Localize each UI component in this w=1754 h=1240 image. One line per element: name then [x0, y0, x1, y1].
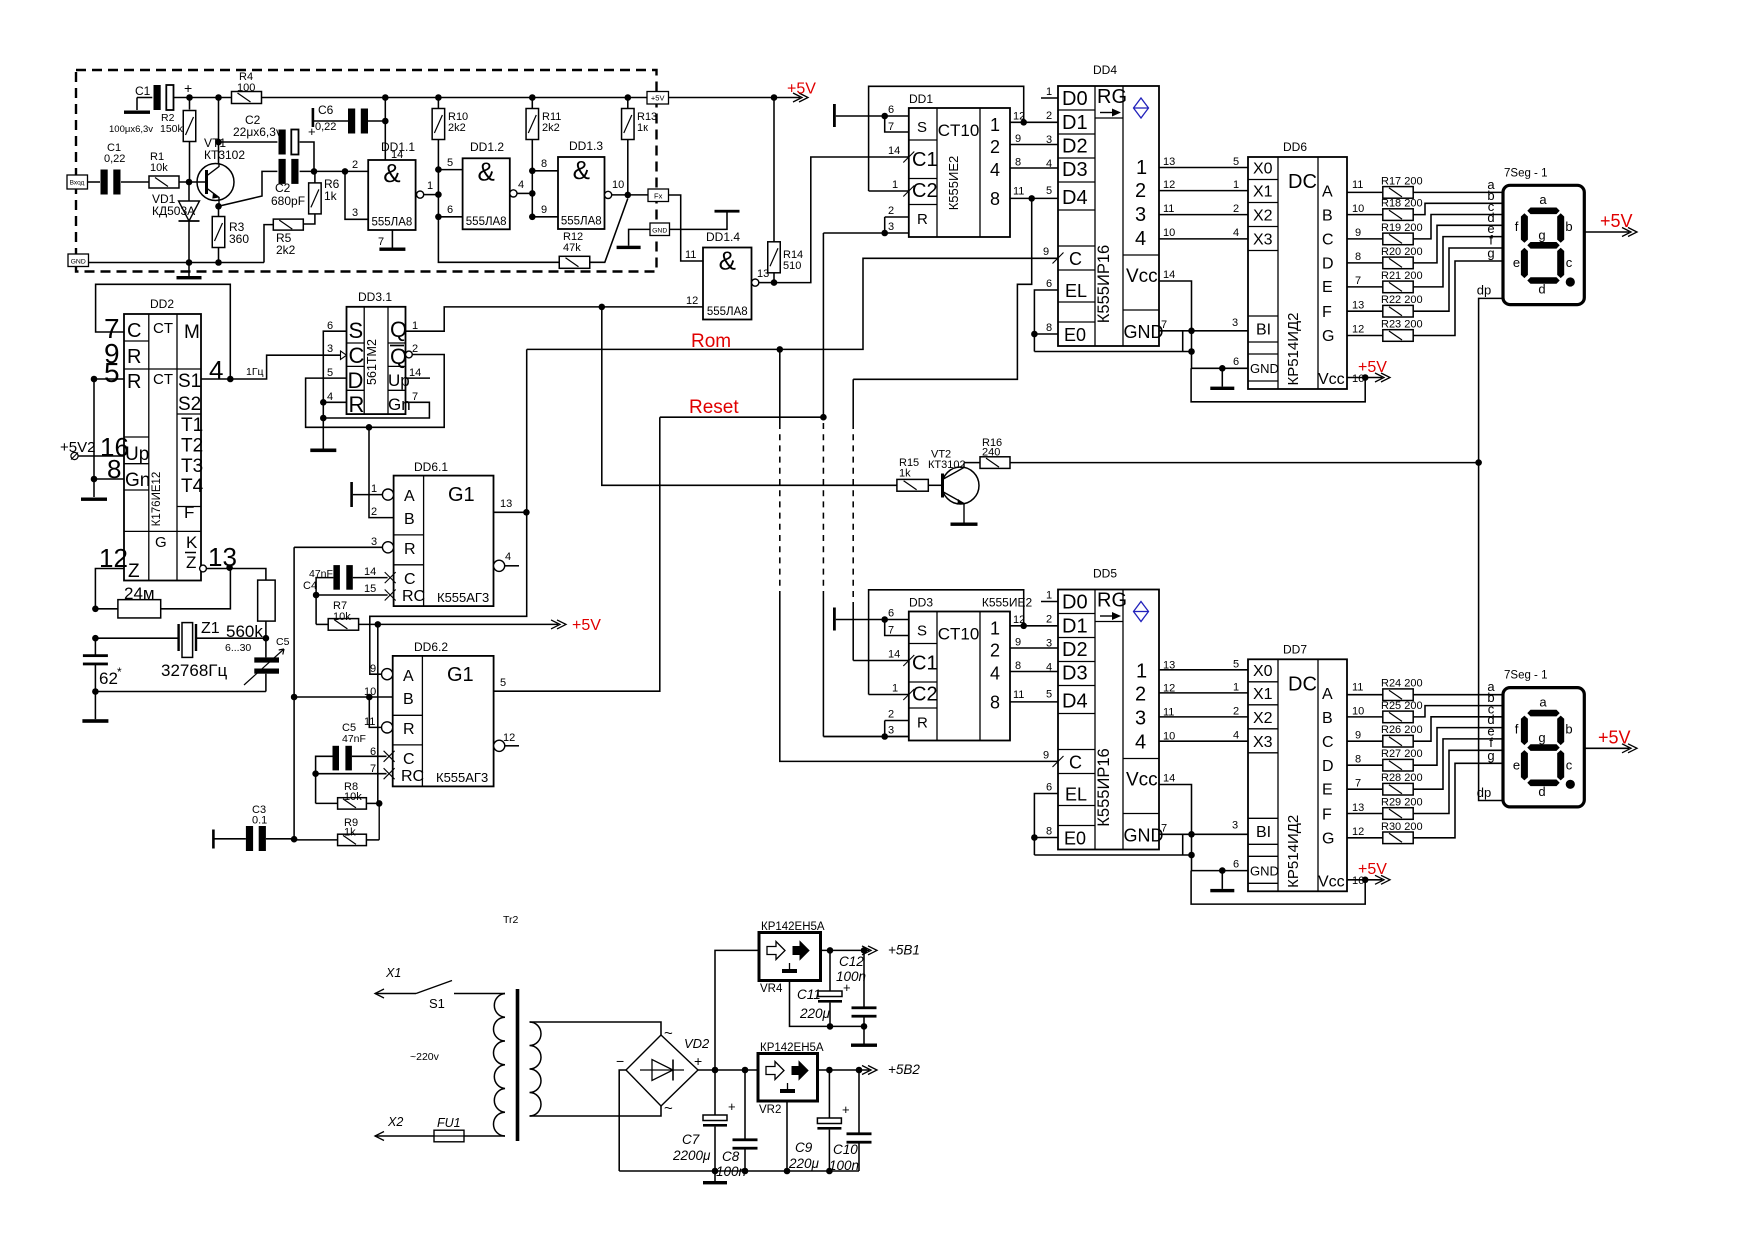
resistor R4 100: [232, 92, 262, 104]
svg-text:C5: C5: [276, 636, 290, 648]
svg-text:Tr2: Tr2: [503, 914, 519, 926]
svg-text:R: R: [127, 371, 141, 393]
svg-text:7: 7: [1161, 319, 1167, 331]
resistor 560k: [258, 580, 276, 621]
IC DD2 K176IE12: [124, 314, 201, 581]
svg-text:g: g: [1538, 228, 1545, 243]
resistor R1 10k: [149, 176, 179, 188]
wire R18 to display pin: [1413, 203, 1503, 214]
resistor R13 1k: [627, 98, 629, 109]
capacitor 62pF: [94, 638, 96, 656]
svg-text:6: 6: [1233, 858, 1239, 870]
capacitor C2 680pF: [279, 159, 286, 184]
svg-text:+5V: +5V: [787, 81, 816, 98]
svg-text:C: C: [404, 571, 416, 588]
resistor R7 10k: [316, 623, 328, 625]
IC DD7 KR514ID2 DC: [1248, 659, 1347, 891]
ground below C12: [863, 1026, 865, 1043]
resistor R17 200: [1347, 191, 1383, 193]
ground below crystal net: [94, 692, 96, 720]
svg-text:X2: X2: [1253, 208, 1273, 225]
svg-text:2: 2: [371, 506, 377, 518]
wire GND box right to bar terminal: [670, 213, 728, 230]
svg-text:D3: D3: [1062, 159, 1088, 181]
svg-text:E: E: [1322, 279, 1333, 296]
transformer Tr2 primary winding: [493, 994, 505, 1137]
svg-text:R23 200: R23 200: [1381, 319, 1423, 331]
svg-text:11: 11: [1013, 186, 1024, 198]
svg-text:3: 3: [371, 536, 377, 548]
wire C4 to DD6.1 C pin14: [353, 577, 388, 579]
svg-text:2: 2: [888, 709, 894, 721]
svg-text:X2: X2: [1253, 710, 1273, 727]
svg-text:Fx: Fx: [654, 191, 663, 200]
svg-text:Vcc: Vcc: [1126, 770, 1158, 791]
svg-text:X0: X0: [1253, 161, 1273, 178]
svg-text:A: A: [1322, 686, 1333, 703]
svg-text:C8: C8: [722, 1149, 740, 1164]
wire DD1.1 output net with R10: [417, 191, 424, 198]
wire VR4 output +5V1: [821, 949, 870, 951]
svg-text:220μ: 220μ: [799, 1006, 831, 1021]
wire DD3.1 R pin4: [323, 401, 346, 403]
wire ground rail bottom: [619, 1170, 859, 1172]
svg-text:9: 9: [1015, 637, 1021, 649]
svg-text:Q: Q: [390, 344, 407, 369]
wires DD5 outputs to DD7 X inputs: [1159, 669, 1248, 671]
ground left of GND box: [629, 229, 650, 245]
svg-text:7: 7: [1355, 777, 1361, 789]
svg-text:DD1.2: DD1.2: [470, 140, 504, 154]
svg-text:C10: C10: [833, 1142, 858, 1157]
wire Qbar node down to DD6.1 B: [369, 427, 394, 517]
svg-text:1: 1: [1046, 590, 1052, 602]
svg-text:8: 8: [1015, 660, 1021, 672]
svg-text:13: 13: [1352, 802, 1364, 814]
wire DD7 Vcc pin16 +5V: [1347, 879, 1365, 881]
svg-text:8: 8: [990, 189, 1000, 209]
svg-text:DD7: DD7: [1283, 642, 1307, 656]
svg-text:100μx6,3v: 100μx6,3v: [109, 124, 153, 135]
svg-text:F: F: [1322, 806, 1332, 823]
svg-text:2: 2: [1135, 180, 1146, 202]
svg-text:Z1: Z1: [201, 620, 220, 637]
svg-text:&: &: [478, 156, 495, 186]
svg-text:14: 14: [1163, 773, 1175, 785]
svg-text:GND: GND: [1250, 361, 1279, 376]
svg-text:CT: CT: [153, 320, 173, 337]
svg-text:VR2: VR2: [759, 1104, 781, 1116]
svg-text:10: 10: [1352, 203, 1364, 215]
wire EL E0 net over to DD7 area: [1034, 854, 1191, 856]
svg-text:R30 200: R30 200: [1381, 821, 1423, 833]
svg-text:8: 8: [1355, 251, 1361, 263]
wire DD2 Z pin12 to 24m resistor: [95, 569, 124, 609]
svg-text:КТ3102: КТ3102: [928, 459, 966, 471]
svg-text:C: C: [349, 343, 365, 368]
svg-text:12: 12: [1163, 179, 1175, 191]
svg-text:E0: E0: [1064, 325, 1086, 345]
wire BI net down to DD7 GND pin6: [1192, 834, 1249, 870]
svg-text:S: S: [917, 119, 927, 136]
svg-text:T4: T4: [181, 476, 204, 497]
svg-text:Z: Z: [186, 553, 196, 572]
wire GND7 vertical to EL net bottom: [1182, 834, 1184, 855]
svg-text:C: C: [1069, 753, 1082, 773]
svg-text:+5V: +5V: [1600, 211, 1633, 231]
terminal box GND right: [650, 223, 670, 236]
svg-text:4: 4: [518, 179, 524, 191]
ground for C1: [124, 111, 150, 114]
svg-text:0,22: 0,22: [315, 121, 336, 133]
svg-text:5: 5: [1046, 185, 1052, 197]
svg-text:10: 10: [612, 179, 624, 191]
svg-text:К555ИР16: К555ИР16: [1095, 748, 1113, 826]
svg-text:C: C: [1322, 734, 1334, 751]
wire DD6.2 B pin10: [294, 696, 393, 698]
svg-text:3: 3: [327, 343, 333, 355]
capacitor C8 100n: [744, 1070, 746, 1140]
svg-text:Gn: Gn: [125, 470, 150, 491]
terminal box Fx: [648, 189, 669, 202]
resistor R2 150k: [189, 98, 191, 110]
svg-text:62: 62: [99, 669, 118, 688]
wire R7 node down to R8 R9: [377, 624, 379, 803]
resistor R24 200: [1347, 694, 1383, 696]
svg-text:7: 7: [888, 625, 894, 637]
svg-text:X2: X2: [387, 1115, 403, 1129]
svg-text:1: 1: [1046, 86, 1052, 98]
svg-text:+: +: [728, 1099, 736, 1114]
terminal box +5V: [647, 92, 669, 105]
diamond symbol DD4: [1134, 98, 1149, 118]
svg-text:7Seg - 1: 7Seg - 1: [1504, 167, 1547, 179]
svg-text:R19 200: R19 200: [1381, 222, 1423, 234]
svg-text:14: 14: [364, 566, 376, 578]
wire DD1 outputs to DD4 D1-D4: [1010, 121, 1058, 123]
ground DD1.1 pin7: [391, 230, 393, 248]
svg-text:2: 2: [1135, 684, 1146, 706]
logic gate DD1.3 555LA8: [558, 157, 605, 229]
svg-text:D2: D2: [1062, 639, 1088, 661]
wire DD2 Gn pin8: [94, 478, 124, 480]
svg-text:3: 3: [352, 207, 358, 219]
svg-text:B: B: [1322, 208, 1333, 225]
svg-text:DD2: DD2: [150, 297, 174, 311]
svg-text:RC: RC: [401, 768, 424, 785]
resistor R29 200: [1347, 813, 1383, 815]
svg-text:5: 5: [500, 677, 506, 689]
IC DD6.2 K555AG3: [393, 656, 494, 787]
wire DD3 S pins 6 7: [836, 619, 909, 621]
svg-text:100n: 100n: [829, 1158, 859, 1173]
wire GND7 vertical to EL net: [1182, 331, 1184, 352]
ground DD3.1: [310, 449, 336, 453]
resistor R12 47k: [559, 256, 590, 268]
svg-text:FU1: FU1: [437, 1116, 461, 1130]
svg-text:D2: D2: [1062, 136, 1088, 158]
input terminal bar for DD6.1 A: [350, 482, 353, 507]
wire VR2 gnd pin: [786, 1101, 788, 1171]
logic gate DD1.2 555LA8: [463, 158, 510, 229]
svg-text:T1: T1: [181, 415, 203, 436]
svg-text:7: 7: [1355, 275, 1361, 287]
svg-text:9: 9: [541, 204, 547, 216]
ground symbol power: [714, 1171, 716, 1181]
svg-text:D1: D1: [1062, 112, 1088, 134]
IC DD1 K555IE2 CT10: [909, 108, 1010, 237]
svg-text:GND: GND: [1124, 826, 1164, 846]
wire long vertical net DD6.1R/DD6.2B/C3: [293, 547, 295, 839]
wire DD3.1 Q output to DD1.4 pin12: [406, 307, 704, 331]
svg-text:1: 1: [990, 619, 1000, 639]
svg-text:R: R: [917, 715, 928, 732]
svg-text:+: +: [184, 80, 192, 96]
svg-text:DD3: DD3: [909, 596, 933, 610]
svg-text:8: 8: [1046, 826, 1052, 838]
svg-text:10k: 10k: [333, 611, 351, 623]
svg-text:4: 4: [990, 664, 1000, 684]
switch S1: [375, 993, 416, 995]
svg-text:D: D: [348, 368, 364, 393]
svg-text:Z: Z: [128, 561, 140, 582]
svg-text:5: 5: [327, 367, 333, 379]
svg-text:GND: GND: [652, 227, 667, 234]
svg-text:S: S: [917, 623, 927, 640]
svg-text:C9: C9: [795, 1140, 813, 1155]
svg-text:1: 1: [1233, 681, 1239, 693]
svg-text:GND: GND: [1250, 863, 1279, 878]
svg-text:К555АГ3: К555АГ3: [437, 590, 489, 605]
wire R29 to display pin: [1413, 750, 1503, 813]
svg-text:X1: X1: [385, 966, 401, 980]
svg-text:T3: T3: [181, 456, 203, 477]
wire R25 to display pin: [1413, 706, 1503, 717]
svg-text:9: 9: [1355, 729, 1361, 741]
wire DD6.1 A pin1: [353, 494, 383, 496]
svg-text:DD1: DD1: [909, 92, 933, 106]
svg-text:e: e: [1513, 757, 1520, 772]
svg-text:360: 360: [229, 232, 249, 246]
resistor R26 200: [1347, 740, 1383, 742]
svg-text:+5V: +5V: [572, 617, 601, 634]
svg-text:16: 16: [1352, 373, 1364, 385]
svg-text:15: 15: [364, 583, 376, 595]
svg-text:Vcc: Vcc: [1126, 266, 1158, 287]
svg-text:c: c: [1566, 255, 1573, 270]
svg-text:1: 1: [1136, 661, 1147, 683]
svg-text:КР514ИД2: КР514ИД2: [1285, 312, 1302, 385]
IC DD4 K555IR16 RG: [1058, 86, 1159, 346]
wire +5V arrow mid: [378, 623, 558, 625]
svg-text:Reset: Reset: [689, 397, 739, 418]
svg-text:10: 10: [1163, 227, 1175, 239]
wire DD5 GND pin7 to DD7 BI: [1159, 833, 1248, 835]
ground at DD7 GND: [1221, 871, 1223, 889]
svg-text:Vcc: Vcc: [1318, 873, 1345, 890]
svg-text:8: 8: [1046, 322, 1052, 334]
svg-text:11: 11: [685, 249, 696, 261]
resistor R20 200: [1347, 262, 1383, 264]
wire DD3.1 Gn pin7 loop: [323, 402, 429, 418]
wire ground rail of input stage: [89, 262, 265, 264]
svg-text:f: f: [1515, 721, 1519, 736]
terminal X1 arrow: [375, 989, 384, 998]
svg-text:K: K: [186, 533, 198, 552]
resistor R6 1k: [314, 171, 316, 183]
capacitor C2 22u electrolytic: [279, 130, 286, 155]
svg-text:+: +: [842, 1102, 850, 1117]
wire +5V out with arrow: [669, 97, 775, 99]
wire DD3 R pin3 line: [823, 736, 908, 738]
voltage regulator VR4 KR142EN5A: [759, 933, 821, 981]
svg-text:2: 2: [1233, 203, 1239, 215]
ground below +5V2 net: [81, 498, 107, 501]
svg-text:КД503А: КД503А: [152, 204, 195, 218]
svg-text:680pF: 680pF: [271, 194, 305, 208]
capacitor C3 0.1: [246, 826, 253, 851]
svg-text:5: 5: [1046, 689, 1052, 701]
wire VR4 gnd rail: [790, 981, 865, 1027]
bridge rectifier VD2: [626, 1035, 698, 1106]
svg-text:16: 16: [1352, 875, 1364, 887]
svg-text:1: 1: [892, 683, 898, 695]
wire DD6.1 RC pin15: [316, 594, 388, 596]
wire R22 to display pin: [1413, 248, 1503, 311]
wire DD5 EL E0 loop: [1034, 794, 1058, 856]
svg-text:R27 200: R27 200: [1381, 748, 1423, 760]
svg-text:~: ~: [664, 1100, 673, 1117]
svg-text:X3: X3: [1253, 232, 1273, 249]
capacitor C7 2200u: [714, 1070, 716, 1117]
resistor R5 2k2: [273, 219, 303, 230]
svg-text:47k: 47k: [563, 242, 581, 254]
svg-text:К555АГ3: К555АГ3: [436, 770, 488, 785]
svg-text:b: b: [1565, 721, 1572, 736]
svg-text:4: 4: [1135, 228, 1146, 250]
svg-text:g: g: [1487, 748, 1494, 763]
resistor 24m: [118, 600, 161, 618]
svg-text:3: 3: [888, 221, 894, 233]
svg-text:~220v: ~220v: [410, 1051, 440, 1063]
svg-text:DD5: DD5: [1093, 567, 1117, 581]
wire DD1 S pins 6 7: [836, 115, 909, 117]
svg-text:3: 3: [1232, 819, 1238, 831]
svg-text:D3: D3: [1062, 663, 1088, 685]
svg-text:8: 8: [541, 158, 547, 170]
svg-text:2: 2: [1046, 110, 1052, 122]
resistor R18 200: [1347, 214, 1383, 216]
svg-text:f: f: [1515, 219, 1519, 234]
svg-text:6...30: 6...30: [225, 642, 251, 654]
wire crystal bottom return: [95, 691, 266, 693]
svg-text:4: 4: [1135, 732, 1146, 754]
wire DD1 C2 loop over to D1: [869, 190, 909, 192]
svg-text:C2: C2: [912, 684, 938, 706]
svg-text:24м: 24м: [124, 584, 155, 603]
svg-text:DC: DC: [1288, 171, 1317, 193]
wire display1 +5V output: [1584, 231, 1629, 233]
svg-text:2: 2: [352, 159, 358, 171]
svg-text:dp: dp: [1477, 283, 1491, 298]
wire D4 net down to DD3 C1 via x853: [853, 198, 1031, 379]
diamond symbol DD5: [1134, 602, 1149, 622]
clock triangle at DD3.1 C input: [341, 351, 347, 359]
transistor VT2 KT3102: [928, 484, 942, 486]
resistor R14 510: [773, 98, 775, 243]
wire DD5 D0 stub: [1041, 601, 1058, 603]
svg-text:100n: 100n: [716, 1164, 746, 1179]
decimal point of HG1: [1566, 277, 1575, 286]
svg-text:C: C: [1069, 249, 1082, 269]
svg-text:D: D: [1322, 758, 1334, 775]
svg-text:10k: 10k: [150, 162, 168, 174]
svg-text:&: &: [383, 158, 400, 188]
wire DD4 Vcc pin14 down: [1159, 281, 1192, 331]
svg-text:C: C: [127, 320, 141, 342]
svg-text:&: &: [719, 246, 736, 276]
svg-text:X3: X3: [1253, 734, 1273, 751]
svg-text:E: E: [1322, 781, 1333, 798]
svg-text:G: G: [1322, 830, 1334, 847]
svg-text:+: +: [694, 1053, 702, 1069]
svg-text:DD6.1: DD6.1: [414, 460, 448, 474]
wire DD3 R pins 2 3: [885, 720, 909, 722]
svg-text:B: B: [403, 691, 414, 708]
wire DD3 C1 from x853 vertical: [853, 660, 909, 662]
svg-text:8: 8: [1015, 157, 1021, 169]
svg-text:R29 200: R29 200: [1381, 797, 1423, 809]
svg-text:КР142ЕН5А: КР142ЕН5А: [761, 921, 825, 933]
capacitor C4 47nF: [333, 565, 340, 590]
wire VT2 base line from DD3.1 Q net: [602, 307, 897, 485]
wire C5 to DD6.2 C pin6: [352, 755, 387, 757]
svg-text:C1: C1: [135, 84, 151, 98]
svg-text:DD3.1: DD3.1: [358, 290, 392, 304]
wire Fx to DD1.4 pin11: [669, 195, 703, 261]
svg-text:C11: C11: [797, 987, 821, 1002]
svg-text:D0: D0: [1062, 88, 1088, 110]
svg-text:RC: RC: [402, 588, 425, 605]
svg-text:VD2: VD2: [684, 1036, 710, 1051]
svg-text:13: 13: [1163, 156, 1175, 168]
IC DD6 KR514ID2 DC: [1248, 157, 1347, 389]
transistor VT1 KT3102: [197, 164, 234, 201]
svg-text:10k: 10k: [344, 791, 362, 803]
svg-text:S1: S1: [178, 371, 201, 392]
capacitor C1 0,22 input: [88, 181, 101, 183]
svg-text:6: 6: [1046, 782, 1052, 794]
svg-text:F: F: [1322, 304, 1332, 321]
logic gate DD1.4 555LA8: [703, 248, 752, 320]
wire DD1 R pins 2 3: [885, 216, 909, 218]
wire DD6.1 output 4 stub: [494, 560, 505, 571]
svg-text:X0: X0: [1253, 663, 1273, 680]
ground at DD6 GND: [1221, 368, 1223, 386]
svg-text:R22 200: R22 200: [1381, 294, 1423, 306]
svg-text:C4: C4: [303, 580, 317, 592]
svg-text:GND: GND: [71, 258, 86, 265]
terminal box GND left: [68, 254, 89, 267]
wire DD6.1 R pin3: [294, 546, 382, 548]
svg-text:R: R: [127, 346, 141, 368]
svg-text:g: g: [1538, 730, 1545, 745]
svg-text:R21 200: R21 200: [1381, 270, 1423, 282]
svg-text:C7: C7: [682, 1132, 700, 1147]
segments of HG2: [1527, 710, 1559, 717]
svg-text:R17 200: R17 200: [1381, 175, 1423, 187]
wire DD1.1 pin14 to +5V: [384, 98, 386, 161]
